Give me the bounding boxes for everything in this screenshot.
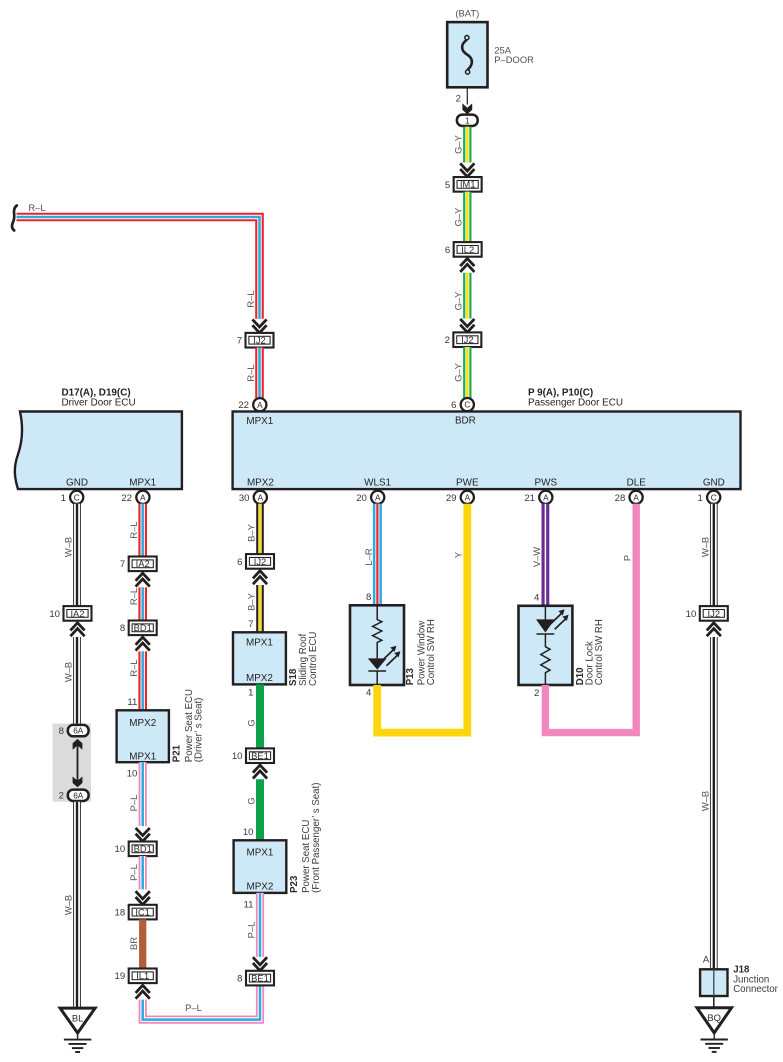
svg-text:(Driver’ s Seat): (Driver’ s Seat)	[194, 698, 205, 763]
svg-text:G–Y: G–Y	[453, 291, 464, 311]
svg-text:B–Y: B–Y	[246, 523, 257, 541]
P23 pin 11 label	[244, 899, 254, 910]
svg-text:5: 5	[445, 180, 450, 191]
node 2 (6A)	[59, 790, 89, 802]
J18 pin A label	[703, 955, 710, 966]
svg-text:P–L: P–L	[185, 1002, 202, 1013]
wire label BR	[128, 937, 139, 950]
svg-text:R–L: R–L	[128, 588, 139, 605]
svg-text:W–B: W–B	[63, 662, 74, 682]
wire label G-Y	[453, 207, 464, 227]
svg-text:10: 10	[243, 827, 254, 838]
svg-text:6: 6	[445, 245, 450, 256]
junction arrow out of IA2	[136, 573, 150, 586]
svg-text:IL1: IL1	[136, 970, 149, 981]
svg-text:Control SW RH: Control SW RH	[594, 619, 605, 685]
ECU S18 Sliding Roof Control ECU	[233, 632, 286, 684]
pin 22 (A) driver MPX1	[121, 491, 149, 504]
S18 pin 7 label	[248, 619, 253, 630]
svg-text:MPX1: MPX1	[246, 416, 273, 427]
wire R-L segment pin22A to IA2	[138, 504, 147, 557]
connector IJ2 pin 10	[686, 606, 728, 621]
wire G segment BE1 to P23	[256, 779, 264, 840]
svg-text:BQ: BQ	[707, 1012, 721, 1023]
svg-text:BE1: BE1	[251, 972, 269, 983]
svg-text:1: 1	[248, 688, 253, 699]
wire label R-L	[245, 290, 256, 307]
wire B-Y segment IJ2 to S18	[256, 585, 264, 632]
svg-text:W–B: W–B	[63, 537, 74, 557]
svg-text:IA2: IA2	[136, 558, 150, 569]
svg-text:P–L: P–L	[128, 864, 139, 881]
wire label R-L	[128, 521, 139, 538]
P13 pin 8 label	[366, 592, 371, 603]
svg-text:21: 21	[524, 493, 535, 504]
connector IA2 pin 10	[49, 606, 91, 621]
svg-text:C: C	[711, 493, 717, 502]
connector IC1 pin 18	[115, 905, 157, 920]
D10 pin 4 label	[534, 593, 540, 604]
switch D10 Door Lock Control SW RH	[519, 606, 573, 685]
node 1 (fusible link ellipse)	[457, 115, 478, 126]
svg-text:V–W: V–W	[531, 547, 542, 567]
junction arrow into BE1	[253, 957, 267, 970]
P13 component label	[405, 619, 437, 685]
svg-text:(Front Passenger’ s Seat): (Front Passenger’ s Seat)	[311, 783, 322, 893]
svg-text:PWE: PWE	[456, 478, 479, 489]
fuse pin 2	[456, 94, 461, 105]
svg-text:1: 1	[698, 493, 703, 504]
P23 pin 10 label	[243, 827, 254, 838]
wire label W-B	[63, 537, 74, 557]
svg-text:7: 7	[237, 336, 242, 347]
shielding highlight box	[53, 724, 92, 802]
svg-text:GND: GND	[703, 478, 725, 489]
wire W-B segment pin1C to IA2	[73, 504, 81, 606]
svg-text:R–L: R–L	[128, 521, 139, 538]
svg-text:P–DOOR: P–DOOR	[494, 54, 534, 65]
junction arrow out of BE1	[253, 765, 267, 778]
junction arrow into IJ2	[460, 319, 474, 332]
svg-text:Y: Y	[453, 551, 464, 558]
svg-text:BD1: BD1	[134, 622, 152, 633]
svg-text:L–R: L–R	[363, 548, 374, 565]
svg-text:MPX1: MPX1	[246, 847, 273, 858]
junction connector J18	[700, 969, 727, 996]
svg-text:6A: 6A	[73, 791, 84, 800]
wire label G-Y	[453, 291, 464, 311]
ECU P9/P10 Passenger Door ECU body	[233, 412, 741, 490]
wire L-R segment pin20A to P13	[373, 504, 382, 606]
wire G-Y segment IJ2 to BDR pin 6	[463, 347, 471, 398]
svg-text:BL: BL	[72, 1012, 83, 1023]
P21 pin 11 label	[127, 697, 137, 708]
P21 component label	[172, 689, 205, 762]
svg-text:G: G	[246, 719, 257, 726]
svg-text:A: A	[140, 493, 146, 502]
wire segment J18 to BQ ground	[713, 996, 715, 1008]
wire P-L segment BD1 to IC1	[139, 856, 147, 889]
svg-text:G–Y: G–Y	[453, 134, 464, 154]
svg-text:B–Y: B–Y	[246, 592, 257, 610]
svg-text:6: 6	[451, 400, 456, 411]
svg-text:22: 22	[121, 493, 132, 504]
torn wire mark R-L	[12, 206, 17, 231]
svg-text:BR: BR	[128, 937, 139, 950]
wire R-L segment IA2 to BD1	[138, 587, 147, 620]
wire R-L from door harness to IJ2	[17, 217, 260, 319]
svg-text:A: A	[633, 493, 639, 502]
junction arrow out of BD1	[136, 637, 150, 650]
wire label W-B	[699, 791, 710, 811]
connector IM1 pin 5	[445, 177, 482, 192]
svg-text:IL2: IL2	[461, 244, 474, 255]
svg-text:G: G	[246, 797, 257, 804]
svg-text:19: 19	[115, 971, 126, 982]
svg-text:4: 4	[534, 593, 540, 604]
wire label R-L	[128, 588, 139, 605]
svg-text:4: 4	[366, 688, 372, 699]
svg-text:Control SW RH: Control SW RH	[426, 619, 437, 685]
svg-text:IJ2: IJ2	[254, 556, 267, 567]
S18 component label	[288, 632, 319, 686]
svg-text:A: A	[703, 955, 710, 966]
wire fuse output	[462, 87, 472, 114]
svg-text:Driver Door ECU: Driver Door ECU	[62, 398, 136, 409]
connector IJ2 pin 7	[237, 333, 274, 348]
svg-text:18: 18	[115, 908, 126, 919]
pin 6 (C) passenger BDR top	[451, 398, 474, 411]
connector BD1 pin 8	[120, 621, 157, 636]
svg-text:10: 10	[232, 751, 243, 762]
svg-text:IA2: IA2	[70, 608, 84, 619]
svg-text:2: 2	[59, 791, 64, 802]
junction arrow into IJ2 (R-L)	[252, 319, 266, 332]
svg-text:2: 2	[534, 688, 539, 699]
svg-text:7: 7	[248, 619, 253, 630]
junction arrow out of IL2	[460, 259, 474, 272]
svg-text:BD1: BD1	[134, 843, 152, 854]
P21 pin 10 label	[127, 768, 138, 779]
svg-text:W–B: W–B	[699, 537, 710, 557]
ECU P23 Power Seat ECU (Front Passenger's Seat)	[234, 840, 287, 893]
svg-text:MPX2: MPX2	[129, 718, 156, 729]
node (BAT) label	[455, 7, 479, 18]
wire G segment S18 to BE1	[256, 684, 264, 748]
svg-text:R–L: R–L	[128, 659, 139, 676]
ECU D17/D19 Driver Door ECU body	[15, 412, 182, 490]
wire label R-L	[245, 364, 256, 381]
svg-text:C: C	[464, 401, 470, 410]
svg-text:P: P	[622, 555, 633, 561]
wire label W-B	[63, 662, 74, 682]
svg-text:10: 10	[127, 768, 138, 779]
switch P13 Power Window Control SW RH	[350, 605, 404, 685]
svg-text:6A: 6A	[73, 727, 84, 736]
connector IL1 pin 19	[115, 969, 157, 984]
svg-text:MPX2: MPX2	[247, 478, 274, 489]
wire P segment DLE to D10	[545, 504, 636, 733]
svg-text:28: 28	[615, 493, 626, 504]
junction arrow into BD1	[136, 828, 150, 841]
wire label B-Y	[246, 523, 257, 541]
connector IJ2 pin 6	[237, 554, 274, 569]
svg-text:BDR: BDR	[455, 416, 476, 427]
wire W-B segment pin1C to IJ2	[710, 504, 718, 606]
wire P-L segment P21 to BD1	[139, 762, 147, 826]
wire P-L segment IL1 to BE1 (bottom run)	[143, 986, 260, 1020]
fuse value label 25A P-DOOR	[494, 44, 534, 65]
connector BE1 pin 8	[237, 971, 274, 986]
wire label V-W	[531, 547, 542, 567]
wire R-L segment BD1 to P21	[138, 651, 147, 710]
pin 30 (A) MPX2	[239, 491, 267, 504]
svg-text:30: 30	[239, 493, 250, 504]
wire W-B segment IJ2 to J18	[710, 637, 718, 969]
svg-text:IJ2: IJ2	[253, 335, 266, 346]
svg-text:IM1: IM1	[460, 179, 476, 190]
svg-text:W–B: W–B	[63, 895, 74, 915]
svg-text:A: A	[257, 401, 263, 410]
svg-text:G–Y: G–Y	[453, 362, 464, 382]
P13 pin 4 label	[366, 688, 372, 699]
junction arrow out of IJ2	[253, 571, 267, 584]
wire label P-L	[128, 795, 139, 812]
svg-text:P23: P23	[289, 875, 300, 893]
svg-text:MPX2: MPX2	[246, 673, 273, 684]
wire label W-B	[63, 895, 74, 915]
svg-text:Connector: Connector	[733, 984, 778, 995]
svg-text:2: 2	[445, 335, 450, 346]
svg-text:MPX2: MPX2	[246, 881, 273, 892]
svg-text:6: 6	[237, 557, 242, 568]
connector BD1 pin 10	[115, 842, 157, 857]
svg-text:A: A	[543, 493, 549, 502]
svg-text:P13: P13	[405, 667, 416, 685]
wire label G-Y	[453, 134, 464, 154]
svg-text:8: 8	[366, 592, 371, 603]
wire G-Y segment IM1 to IL2	[463, 192, 471, 243]
connector BE1 pin 10	[232, 748, 274, 763]
node 8 (6A)	[59, 725, 89, 737]
svg-text:BE1: BE1	[251, 750, 269, 761]
wire label P-L	[128, 864, 139, 881]
wire G-Y segment IL2 to IJ2	[463, 273, 471, 319]
wire BR segment IC1 to IL1	[139, 919, 146, 968]
svg-text:R–L: R–L	[245, 290, 256, 307]
svg-text:DLE: DLE	[627, 478, 647, 489]
wire G-Y segment fuse to IM1	[463, 127, 471, 163]
svg-text:R–L: R–L	[245, 364, 256, 381]
svg-text:Control ECU: Control ECU	[308, 632, 319, 686]
wire label G	[246, 719, 257, 726]
svg-text:IC1: IC1	[135, 906, 150, 917]
wire B-Y segment pin30A to IJ2	[256, 504, 264, 554]
wire label P-L	[246, 922, 257, 939]
wire Y segment PWE to P13	[377, 504, 467, 733]
pin 28 (A) DLE	[615, 491, 643, 504]
wire label Y	[453, 551, 464, 558]
wire label G-Y	[453, 362, 464, 382]
svg-text:8: 8	[59, 726, 64, 737]
ground BL	[60, 1008, 95, 1052]
svg-text:11: 11	[127, 697, 137, 708]
wire label R-L	[128, 659, 139, 676]
junction arrow out of IA2	[70, 623, 84, 636]
ECU P21 Power Seat ECU (Driver's Seat)	[117, 710, 169, 762]
junction arrow into IC1	[136, 891, 150, 904]
connector IL2 pin 6	[445, 242, 482, 257]
ECU D17/D19 Driver Door ECU title	[62, 387, 136, 408]
S18 pin 1 label	[248, 688, 253, 699]
wire label G	[246, 797, 257, 804]
svg-text:A: A	[258, 493, 264, 502]
pin 20 (A) WLS1	[356, 491, 384, 504]
wire label W-B	[699, 537, 710, 557]
svg-text:8: 8	[237, 974, 242, 985]
svg-text:10: 10	[49, 609, 60, 620]
svg-text:Passenger Door ECU: Passenger Door ECU	[528, 398, 623, 409]
wire V-W segment pin21A to D10	[542, 504, 550, 606]
pin 29 (A) PWE	[446, 491, 474, 504]
fuse 25A P-DOOR	[447, 22, 487, 87]
svg-text:7: 7	[120, 559, 125, 570]
ground BQ	[697, 1008, 732, 1052]
svg-text:GND: GND	[66, 478, 88, 489]
svg-text:A: A	[465, 493, 471, 502]
wire label B-Y	[246, 592, 257, 610]
svg-text:G–Y: G–Y	[453, 207, 464, 227]
connector IA2 pin 7	[120, 557, 157, 572]
junction arrow out of IJ2	[707, 623, 721, 636]
J18 component label	[733, 965, 778, 995]
svg-text:C: C	[74, 493, 80, 502]
pin 21 (A) PWS	[524, 491, 552, 504]
svg-text:1: 1	[61, 493, 66, 504]
wire label P-L horizontal	[185, 1002, 202, 1013]
pin 22 (A) passenger MPX1 top	[238, 398, 266, 411]
svg-text:11: 11	[244, 899, 254, 910]
svg-text:10: 10	[115, 844, 126, 855]
ECU P9/P10 Passenger Door ECU title	[528, 387, 623, 408]
svg-text:2: 2	[456, 94, 461, 105]
svg-text:PWS: PWS	[535, 478, 558, 489]
D10 component label	[575, 619, 605, 685]
twisted pair link arrows between 6A nodes	[73, 739, 83, 787]
wire W-B segment IA2 to 6A	[73, 637, 81, 724]
svg-text:MPX1: MPX1	[129, 478, 156, 489]
svg-text:10: 10	[686, 609, 697, 620]
svg-text:IJ2: IJ2	[708, 608, 721, 619]
svg-text:MPX1: MPX1	[129, 751, 156, 762]
svg-text:20: 20	[356, 493, 367, 504]
junction arrow out of IL1	[136, 985, 150, 998]
wire label L-R	[363, 548, 374, 565]
junction arrow into IM1	[460, 163, 474, 176]
pin 1 (C) driver GND	[61, 491, 84, 504]
svg-text:P–L: P–L	[246, 922, 257, 939]
svg-text:P–L: P–L	[128, 795, 139, 812]
svg-text:W–B: W–B	[699, 791, 710, 811]
wire label P	[622, 555, 633, 561]
svg-text:A: A	[375, 493, 381, 502]
connector IJ2 pin 2	[445, 332, 482, 347]
svg-text:29: 29	[446, 493, 457, 504]
svg-text:R–L: R–L	[28, 202, 45, 213]
svg-text:IJ2: IJ2	[461, 334, 474, 345]
svg-text:22: 22	[238, 400, 249, 411]
svg-text:8: 8	[120, 623, 125, 634]
D10 pin 2 label	[534, 688, 539, 699]
P23 component label	[289, 783, 322, 893]
svg-text:MPX1: MPX1	[246, 638, 273, 649]
svg-text:P21: P21	[172, 744, 183, 762]
svg-text:(BAT): (BAT)	[455, 7, 479, 18]
svg-text:WLS1: WLS1	[364, 478, 391, 489]
wire label R-L horizontal	[28, 202, 45, 213]
pin 1 (C) passenger GND	[698, 491, 721, 504]
wire P-L segment P23 to BE1	[256, 893, 264, 957]
svg-text:1: 1	[465, 117, 470, 126]
wire W-B segment 6A to BL ground	[73, 802, 81, 1008]
wire R-L segment IJ2 to pin 22	[255, 348, 264, 399]
